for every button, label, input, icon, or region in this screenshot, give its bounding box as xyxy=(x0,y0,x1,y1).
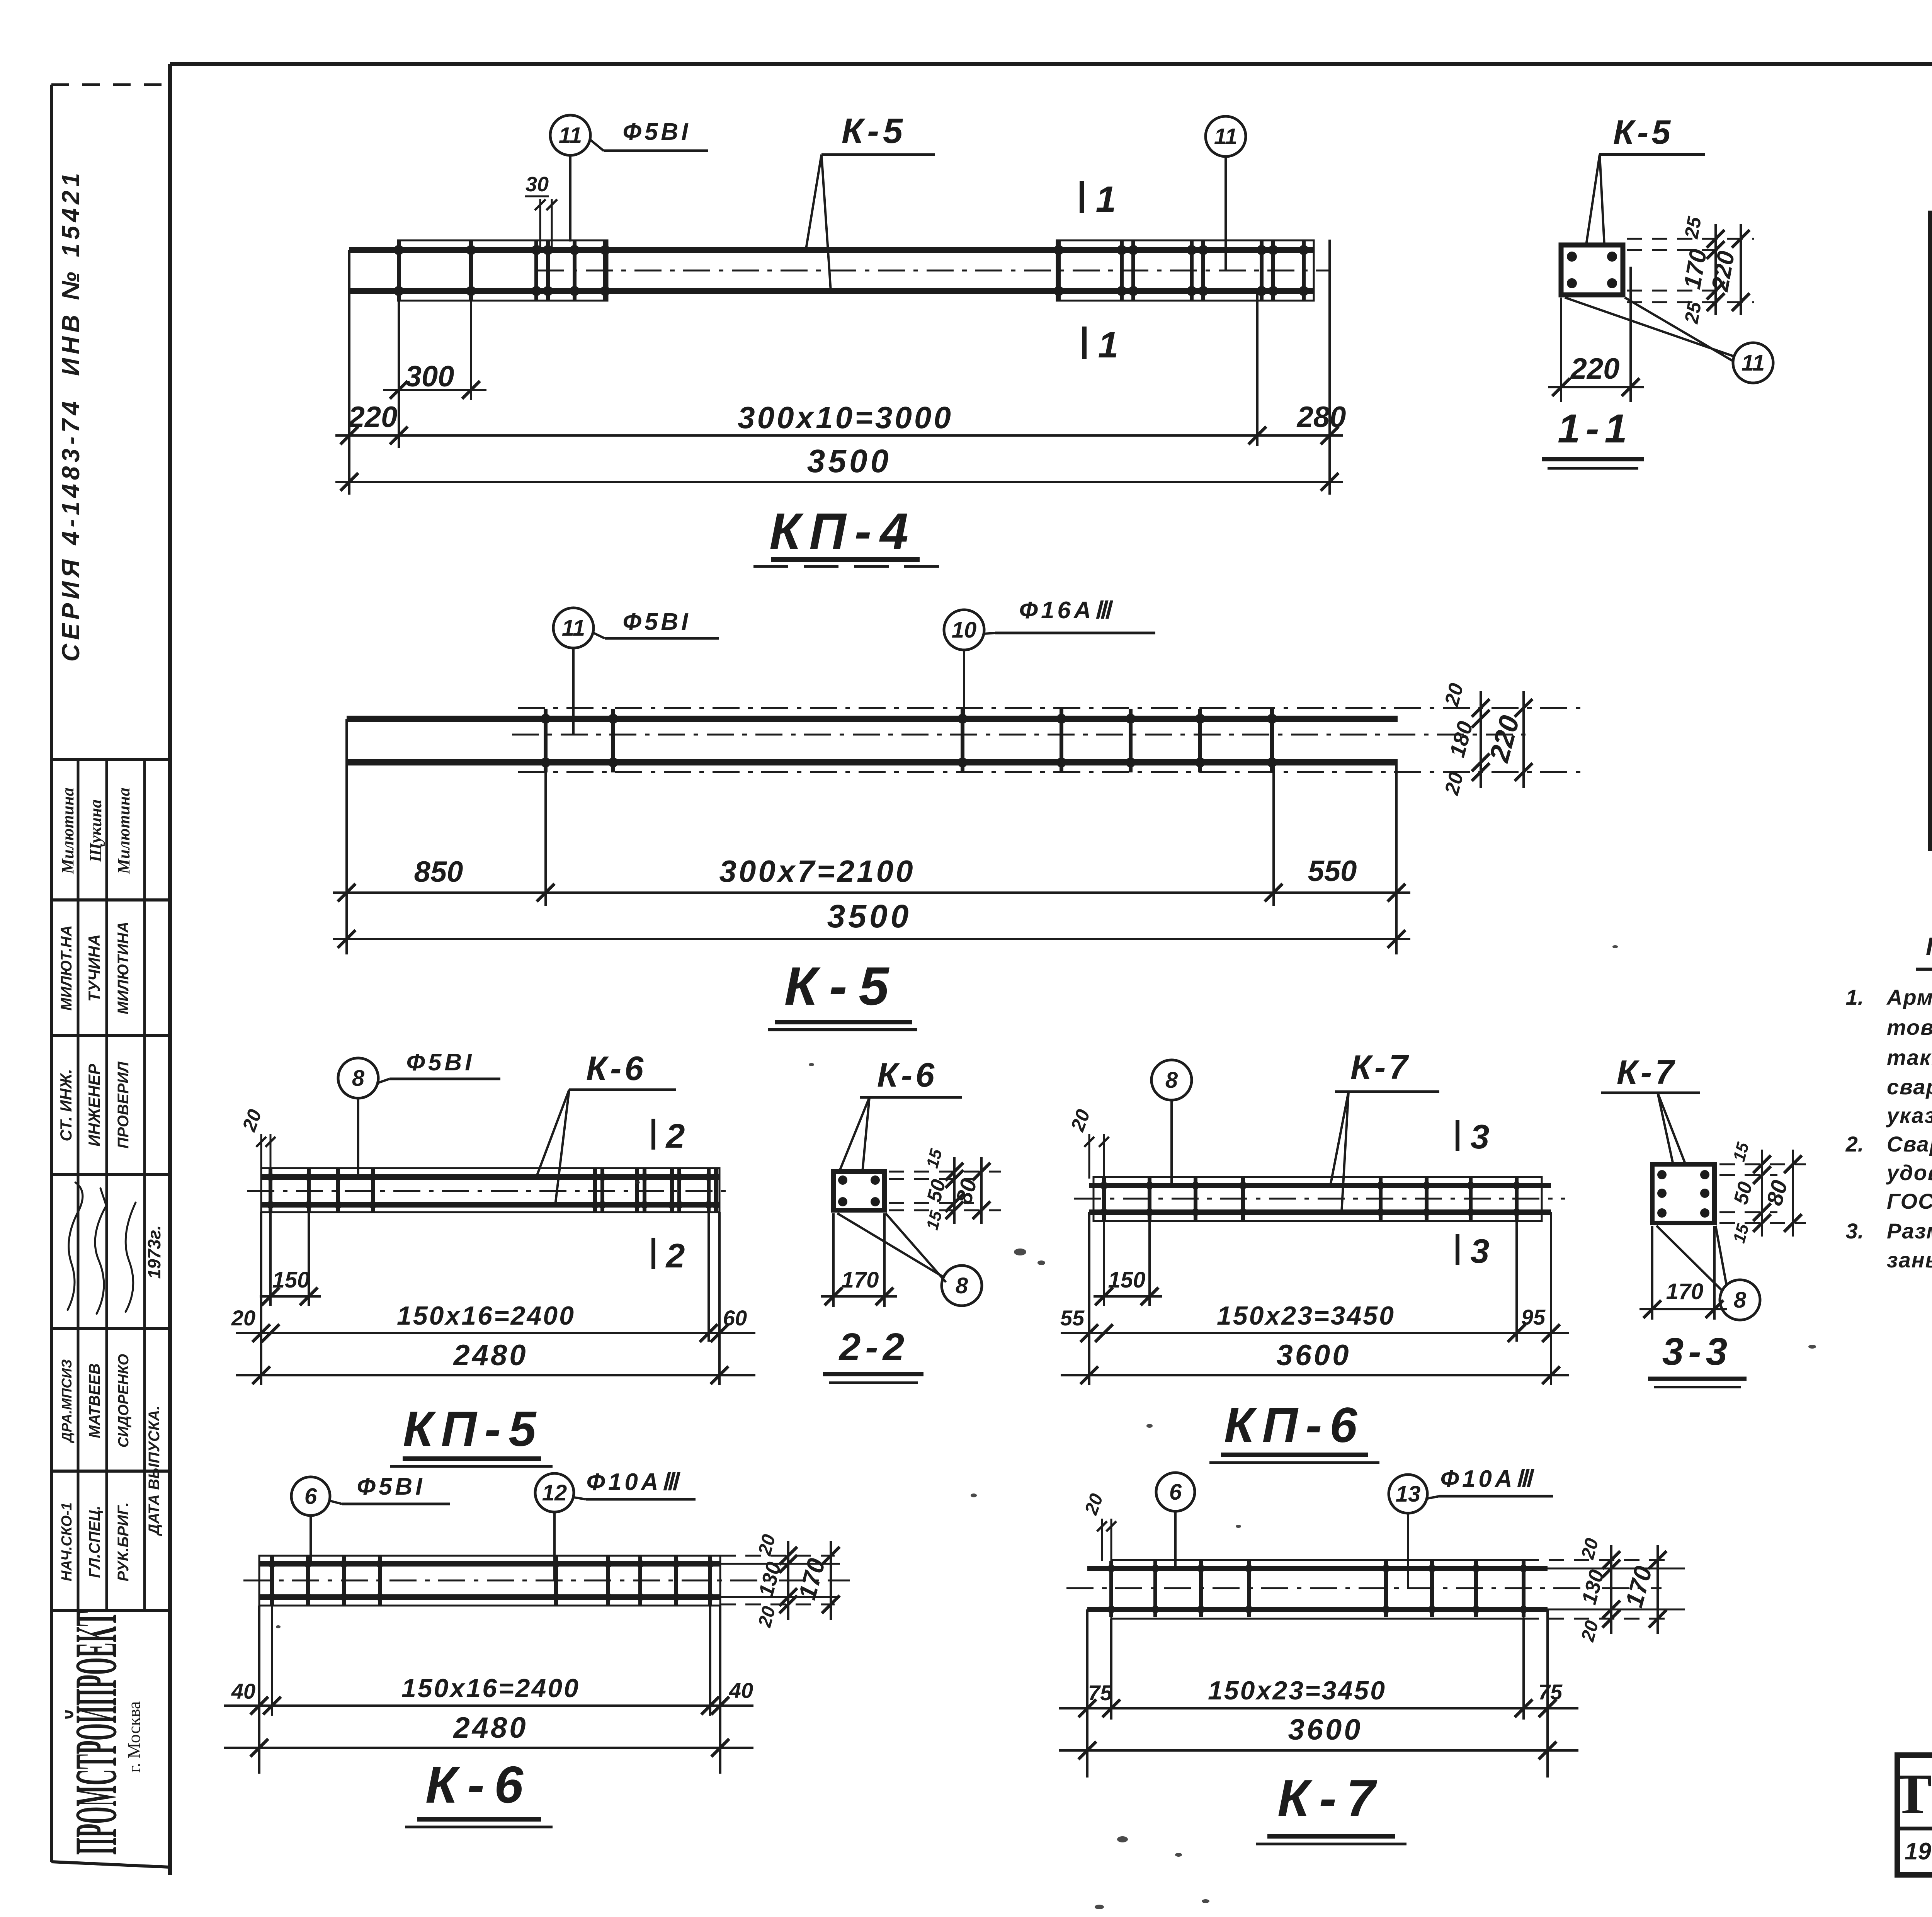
section mark 1 above beam xyxy=(1080,181,1084,213)
svg-text:К-6: К-6 xyxy=(586,1049,646,1087)
КП-6 chain 3600 xyxy=(1061,1374,1569,1376)
svg-text:Ф16АⅢ: Ф16АⅢ xyxy=(1019,597,1114,624)
svg-text:850: 850 xyxy=(414,856,463,888)
beam КП-6 stirrups xyxy=(1102,1178,1106,1220)
beam КП-6 top chord bar xyxy=(1089,1183,1551,1188)
svg-text:Милютина: Милютина xyxy=(58,788,77,874)
svg-text:ПРОВЕРИЛ: ПРОВЕРИЛ xyxy=(115,1061,132,1149)
svg-text:3.: 3. xyxy=(1846,1219,1864,1243)
svg-text:12: 12 xyxy=(542,1480,567,1505)
svg-text:150: 150 xyxy=(272,1267,310,1293)
specification steel table frame xyxy=(1930,213,1932,849)
beam КП-6 stud envelope xyxy=(1094,1177,1542,1221)
svg-text:170: 170 xyxy=(793,1555,830,1602)
svg-text:80: 80 xyxy=(1762,1177,1792,1208)
svg-text:20: 20 xyxy=(1440,770,1468,798)
svg-text:2-2: 2-2 xyxy=(838,1325,909,1369)
svg-text:3: 3 xyxy=(1471,1118,1490,1156)
section 1-1 stirrup square xyxy=(1561,245,1623,295)
left strip signatures xyxy=(68,1182,83,1310)
section 1-1 dim 220 horizontal xyxy=(1560,298,1562,402)
svg-text:150х23=3450: 150х23=3450 xyxy=(1208,1676,1386,1705)
svg-text:220: 220 xyxy=(1483,712,1526,766)
beam К-7 axis line xyxy=(1066,1587,1662,1589)
beam К-5 stud envelope top xyxy=(518,707,1583,709)
К-6 callout circle 6 with 5ВI xyxy=(291,1477,330,1516)
svg-text:220: 220 xyxy=(348,401,398,434)
svg-text:75: 75 xyxy=(1088,1681,1112,1705)
svg-text:3600: 3600 xyxy=(1288,1713,1362,1746)
section 2-2 extension lines xyxy=(889,1171,1001,1173)
dimension chain 220 3000 280 xyxy=(335,434,1343,437)
svg-text:20: 20 xyxy=(1081,1491,1107,1518)
svg-text:300х7=2100: 300х7=2100 xyxy=(719,854,915,888)
svg-text:ДРА.МПСИЗ: ДРА.МПСИЗ xyxy=(59,1359,75,1444)
beam К-7 stirrups xyxy=(1109,1561,1113,1617)
КП-5 section mark 2 above xyxy=(651,1119,655,1150)
svg-text:ДАТА ВЫПУСКА.: ДАТА ВЫПУСКА. xyxy=(146,1406,163,1536)
beam К-7 stud envelope xyxy=(1111,1560,1524,1619)
К-7 extension lines xyxy=(1086,1609,1088,1778)
svg-text:25: 25 xyxy=(1680,215,1706,241)
svg-text:К-5: К-5 xyxy=(842,111,906,151)
svg-text:Ф5ВI: Ф5ВI xyxy=(406,1049,475,1076)
svg-text:20: 20 xyxy=(754,1532,779,1558)
svg-text:11: 11 xyxy=(1214,124,1237,149)
svg-text:8: 8 xyxy=(956,1273,968,1298)
section 2-2 dims 15 50 15 xyxy=(953,1157,956,1224)
КП-6 section mark 3 above xyxy=(1456,1120,1459,1151)
svg-text:6: 6 xyxy=(1169,1480,1182,1505)
К-7 chain 75 3450 75 xyxy=(1059,1707,1578,1709)
КП-6 dim 20 top left xyxy=(1088,1134,1090,1179)
svg-text:сварки в соответствии с: сварки в соответствии с xyxy=(1887,1075,1932,1099)
svg-text:20: 20 xyxy=(1577,1618,1602,1644)
beam КП-6 bottom chord bar xyxy=(1089,1209,1551,1215)
svg-text:3500: 3500 xyxy=(827,898,912,934)
svg-text:Ф5ВI: Ф5ВI xyxy=(357,1473,425,1500)
КП-5 chain 20 2400 60 xyxy=(236,1332,755,1334)
section 3-3 dim 170 xyxy=(1651,1226,1653,1320)
svg-text:ИНЖЕНЕР: ИНЖЕНЕР xyxy=(85,1063,103,1146)
svg-text:3-3: 3-3 xyxy=(1662,1330,1732,1373)
svg-text:заны по осям стержней.: заны по осям стержней. xyxy=(1887,1248,1932,1272)
beam К-6 stirrups xyxy=(270,1556,274,1605)
svg-text:СТ. ИНЖ.: СТ. ИНЖ. xyxy=(57,1069,75,1141)
section 3-3 dims 15 50 15 xyxy=(1761,1150,1763,1237)
svg-text:К-5: К-5 xyxy=(784,956,901,1016)
svg-text:Милютина: Милютина xyxy=(114,788,133,874)
svg-text:Сварные каркасы должны: Сварные каркасы должны xyxy=(1887,1132,1932,1156)
КП-5 chain 2480 xyxy=(236,1374,755,1376)
svg-text:К-5: К-5 xyxy=(1613,113,1673,151)
svg-text:СИДОРЕНКО: СИДОРЕНКО xyxy=(116,1354,132,1448)
svg-text:20: 20 xyxy=(1577,1536,1602,1562)
callout circle 11 with 5ВI xyxy=(553,608,594,648)
svg-text:11: 11 xyxy=(1742,350,1765,376)
svg-text:15: 15 xyxy=(923,1209,946,1232)
К-6 chain 40 2400 40 xyxy=(224,1704,753,1707)
svg-text:40: 40 xyxy=(231,1679,255,1703)
svg-text:Ф10АⅢ: Ф10АⅢ xyxy=(587,1469,681,1495)
svg-text:Ф5ВI: Ф5ВI xyxy=(623,119,691,145)
КП-6 dim 150 xyxy=(1148,1212,1151,1306)
svg-text:НАЧ.СКО-1: НАЧ.СКО-1 xyxy=(59,1502,75,1581)
К-6 extension lines xyxy=(258,1606,260,1774)
svg-text:170: 170 xyxy=(842,1267,879,1293)
К-6 height dims 20 130 20 xyxy=(787,1541,789,1620)
svg-text:ПРОМСТРОЙПРОЕКТ: ПРОМСТРОЙПРОЕКТ xyxy=(63,1611,129,1855)
beam К-5 stud envelope bottom xyxy=(518,771,1583,773)
К-7 dim 20 top left xyxy=(1101,1519,1103,1561)
svg-text:г. Москва: г. Москва xyxy=(124,1701,144,1773)
svg-text:1973: 1973 xyxy=(1905,1838,1932,1865)
dimension chain 3500 К-5 xyxy=(333,938,1410,940)
svg-text:150х23=3450: 150х23=3450 xyxy=(1217,1301,1395,1330)
svg-text:3600: 3600 xyxy=(1276,1339,1351,1372)
svg-text:ТУЧИНА: ТУЧИНА xyxy=(85,934,103,1002)
extension lines КП-4 xyxy=(348,250,350,495)
svg-text:СЕРИЯ 4-1483-74 ИНВ № 15421: СЕРИЯ 4-1483-74 ИНВ № 15421 xyxy=(57,169,85,662)
svg-text:Арматурные каркасы изго-: Арматурные каркасы изго- xyxy=(1886,985,1932,1009)
section 2-2 dim 170 xyxy=(832,1213,835,1307)
КП-6 chain 55 3450 95 xyxy=(1061,1332,1569,1334)
beam КП-5 top chord bar xyxy=(261,1174,719,1180)
svg-text:Щукина: Щукина xyxy=(86,799,105,862)
svg-text:3500: 3500 xyxy=(807,443,892,479)
svg-text:3: 3 xyxy=(1471,1232,1490,1270)
dimension 30 between double stirrups xyxy=(539,199,541,247)
beam К-5 bottom chord bar xyxy=(347,759,1398,765)
svg-text:8: 8 xyxy=(352,1066,365,1091)
svg-text:К-7: К-7 xyxy=(1617,1053,1677,1091)
svg-text:220: 220 xyxy=(1570,352,1620,385)
section 1-1 extension lines xyxy=(1627,238,1754,240)
beam К-7 bottom chord bar xyxy=(1087,1607,1548,1612)
beam К-6 stud envelope xyxy=(259,1556,720,1606)
svg-text:20: 20 xyxy=(238,1106,266,1135)
sheet frame top border xyxy=(170,62,1932,66)
title block frame xyxy=(1897,1755,1932,1875)
section 3-3 stirrup square xyxy=(1652,1164,1714,1223)
extension lines К-5 xyxy=(345,719,348,954)
svg-text:170: 170 xyxy=(1620,1563,1657,1610)
svg-text:300: 300 xyxy=(405,360,454,393)
svg-text:Ф5ВI: Ф5ВI xyxy=(623,609,691,635)
svg-text:11: 11 xyxy=(559,123,582,148)
svg-text:95: 95 xyxy=(1521,1305,1546,1329)
svg-text:Размеры каркасов пока-: Размеры каркасов пока- xyxy=(1887,1219,1932,1243)
svg-text:1: 1 xyxy=(1096,179,1116,220)
svg-text:ГОСТ 10922-64.: ГОСТ 10922-64. xyxy=(1887,1189,1932,1213)
section 2-2 stirrup square xyxy=(833,1172,884,1210)
svg-text:ТК: ТК xyxy=(1894,1762,1932,1826)
К-6 height dim 170 xyxy=(830,1541,832,1620)
beam КП-5 stud envelope xyxy=(261,1168,719,1212)
svg-text:2: 2 xyxy=(665,1117,685,1155)
svg-text:8: 8 xyxy=(1734,1288,1747,1313)
svg-text:150: 150 xyxy=(1108,1267,1146,1293)
svg-text:2.: 2. xyxy=(1845,1132,1864,1156)
svg-text:55: 55 xyxy=(1060,1306,1085,1330)
svg-text:Ф10АⅢ: Ф10АⅢ xyxy=(1440,1466,1535,1492)
svg-text:20: 20 xyxy=(1066,1106,1094,1135)
КП-6 extension lines xyxy=(1088,1212,1090,1385)
svg-text:ГЛ.СПЕЦ.: ГЛ.СПЕЦ. xyxy=(86,1505,103,1578)
svg-text:50: 50 xyxy=(923,1177,950,1204)
svg-text:2480: 2480 xyxy=(452,1711,528,1744)
svg-text:КП-6: КП-6 xyxy=(1224,1398,1365,1453)
section 2-2 dim 80 xyxy=(980,1157,983,1224)
svg-text:К-6: К-6 xyxy=(877,1056,937,1094)
section 2-2 corner bars xyxy=(838,1175,847,1185)
svg-text:КП-4: КП-4 xyxy=(769,503,917,560)
callout circle 11 left with steel grade 5ВI xyxy=(550,115,590,155)
section 3-3 dim 80 xyxy=(1792,1150,1794,1237)
beam КП-4 bottom chord bar xyxy=(349,288,1314,294)
svg-text:20: 20 xyxy=(754,1604,779,1630)
svg-text:К-7: К-7 xyxy=(1350,1048,1411,1086)
svg-text:МАТВЕЕВ: МАТВЕЕВ xyxy=(86,1363,103,1438)
svg-text:8: 8 xyxy=(1165,1068,1178,1093)
beam К-7 chord extensions right xyxy=(1548,1568,1685,1570)
section 1-1 dim 220 vertical xyxy=(1740,224,1742,315)
beam КП-5 axis line xyxy=(247,1190,734,1192)
svg-text:170: 170 xyxy=(1666,1279,1704,1304)
svg-text:2480: 2480 xyxy=(452,1339,528,1372)
svg-text:15: 15 xyxy=(923,1147,946,1170)
svg-text:130: 130 xyxy=(1577,1567,1609,1607)
svg-text:Примечания.: Примечания. xyxy=(1926,932,1932,961)
dimension chain 3500 xyxy=(335,481,1343,483)
К-7 height dim 170 xyxy=(1656,1545,1659,1634)
dimension chain 300 xyxy=(383,389,486,391)
svg-text:20: 20 xyxy=(1440,681,1468,709)
КП-5 callout circle 8 with 5ВI xyxy=(338,1058,378,1098)
beam К-5 top chord bar xyxy=(347,716,1398,722)
svg-text:40: 40 xyxy=(729,1678,753,1703)
svg-text:тактной точечной электро-: тактной точечной электро- xyxy=(1887,1045,1932,1070)
svg-text:МИЛЮТИНА: МИЛЮТИНА xyxy=(115,922,132,1014)
left strip top edge dash xyxy=(51,83,170,86)
КП-6 callout circle 8 xyxy=(1151,1060,1192,1100)
svg-text:130: 130 xyxy=(754,1560,786,1599)
svg-text:1: 1 xyxy=(1098,325,1119,366)
svg-text:550: 550 xyxy=(1308,855,1357,888)
section 1-1 dims 25 170 25 xyxy=(1714,224,1717,315)
КП-5 dim 20 top left xyxy=(260,1134,262,1171)
beam К-6 top chord bar xyxy=(259,1561,720,1567)
beam КП-4 axis line xyxy=(537,270,1331,272)
svg-text:2: 2 xyxy=(665,1237,685,1275)
svg-text:К-6: К-6 xyxy=(425,1755,533,1814)
svg-text:60: 60 xyxy=(723,1306,747,1330)
К-7 callout circle 6 xyxy=(1156,1473,1195,1511)
К-6 callout circle 12 with 10АIII xyxy=(535,1473,574,1512)
beam КП-4 stirrups xyxy=(397,240,401,301)
svg-text:11: 11 xyxy=(562,616,585,641)
left strip outer border xyxy=(50,85,53,1862)
К-7 callout circle 13 with 10АIII xyxy=(1389,1475,1427,1513)
svg-text:13: 13 xyxy=(1396,1482,1421,1507)
svg-text:180: 180 xyxy=(1445,719,1478,760)
spec table grid xyxy=(1930,297,1932,300)
svg-text:300х10=3000: 300х10=3000 xyxy=(738,400,953,435)
svg-text:1.: 1. xyxy=(1846,985,1864,1009)
svg-text:КП-5: КП-5 xyxy=(403,1402,544,1457)
К-6 chain 2480 xyxy=(224,1747,753,1749)
КП-5 dim 150 xyxy=(308,1212,310,1306)
svg-text:20: 20 xyxy=(231,1306,255,1330)
К-7 chain 3600 xyxy=(1059,1749,1578,1752)
beam К-6 axis line xyxy=(243,1580,850,1582)
beam КП-4 right cage envelope xyxy=(1057,240,1314,301)
beam К-7 top chord bar xyxy=(1087,1566,1548,1571)
beam К-5 axis line xyxy=(512,734,1526,736)
svg-text:удовлетворять требованиям: удовлетворять требованиям xyxy=(1886,1160,1932,1185)
section 3-3 extension lines xyxy=(1719,1163,1806,1165)
svg-text:75: 75 xyxy=(1538,1680,1563,1704)
svg-text:150х16=2400: 150х16=2400 xyxy=(397,1301,575,1330)
dimension chain 850 2100 550 xyxy=(333,891,1410,894)
beam К-6 chord extensions right xyxy=(720,1563,840,1565)
section mark 1 below beam xyxy=(1082,327,1087,359)
КП-6 section mark 3 below xyxy=(1456,1234,1459,1265)
svg-text:К-7: К-7 xyxy=(1277,1769,1385,1827)
section 3-3 bars xyxy=(1657,1170,1667,1179)
beam КП-4 top chord bar xyxy=(349,247,1314,253)
section 1-1 corner bars xyxy=(1567,252,1577,262)
svg-text:1973г.: 1973г. xyxy=(144,1225,164,1279)
КП-5 section mark 2 below xyxy=(651,1238,655,1269)
beam КП-5 bottom chord bar xyxy=(261,1202,719,1208)
К-5 height dimension 220 xyxy=(1522,691,1525,788)
scan specks xyxy=(1014,1249,1026,1255)
svg-text:6: 6 xyxy=(304,1484,317,1509)
beam К-5 stirrups xyxy=(544,709,548,772)
svg-text:указаниями СН393-69.: указаниями СН393-69. xyxy=(1886,1103,1932,1128)
section 1-1 callout circle 11 xyxy=(1733,343,1773,383)
КП-5 extension lines xyxy=(260,1212,262,1385)
beam КП-6 axis line xyxy=(1074,1198,1565,1200)
beam КП-4 left cage envelope xyxy=(398,240,607,301)
svg-text:РУК.БРИГ.: РУК.БРИГ. xyxy=(115,1502,132,1582)
svg-text:15: 15 xyxy=(1730,1222,1753,1245)
beam К-6 bottom chord bar xyxy=(259,1594,720,1600)
svg-text:10: 10 xyxy=(952,617,977,643)
svg-text:25: 25 xyxy=(1680,300,1706,326)
svg-text:МИЛЮТ.НА: МИЛЮТ.НА xyxy=(58,925,75,1010)
section 3-3 callout circle 8 xyxy=(1720,1280,1760,1320)
svg-text:150х16=2400: 150х16=2400 xyxy=(401,1674,580,1703)
svg-text:1-1: 1-1 xyxy=(1558,406,1633,451)
svg-text:товлять при помощи кон-: товлять при помощи кон- xyxy=(1887,1015,1932,1039)
left strip table lines xyxy=(51,758,170,761)
section 2-2 callout circle 8 xyxy=(942,1266,982,1306)
К-5 height dimensions 20 180 20 xyxy=(1480,691,1482,788)
beam КП-5 stirrups xyxy=(269,1169,272,1213)
callout circle 11 right xyxy=(1206,116,1246,156)
svg-text:30: 30 xyxy=(526,173,549,196)
svg-text:280: 280 xyxy=(1296,401,1346,434)
К-7 height dims 20 130 20 xyxy=(1610,1545,1612,1634)
callout circle 10 with 16АIII xyxy=(944,610,984,650)
svg-text:15: 15 xyxy=(1730,1140,1753,1163)
